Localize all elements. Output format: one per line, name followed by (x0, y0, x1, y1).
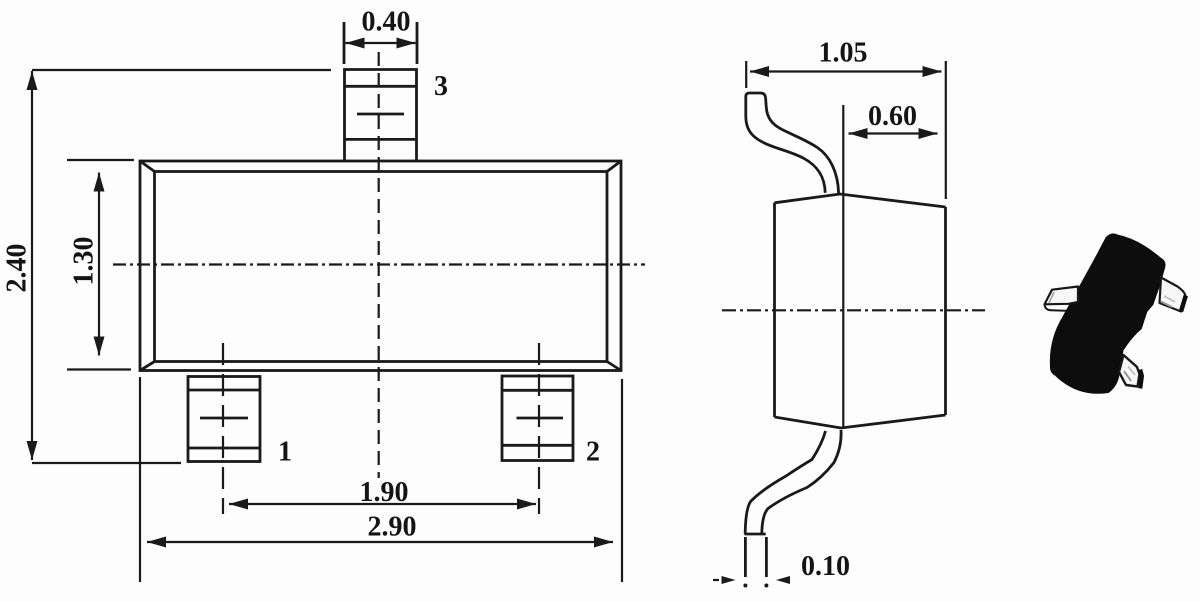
svg-text:3: 3 (434, 71, 448, 102)
svg-text:0.40: 0.40 (362, 7, 411, 38)
svg-text:1: 1 (278, 437, 292, 468)
svg-text:0.10: 0.10 (801, 551, 850, 582)
svg-text:2.90: 2.90 (368, 512, 417, 543)
svg-text:1.90: 1.90 (360, 477, 409, 508)
svg-text:1.05: 1.05 (819, 38, 868, 69)
svg-text:1.30: 1.30 (69, 237, 100, 286)
svg-text:2.40: 2.40 (2, 244, 33, 293)
svg-text:2: 2 (586, 437, 600, 468)
svg-text:0.60: 0.60 (868, 101, 917, 132)
